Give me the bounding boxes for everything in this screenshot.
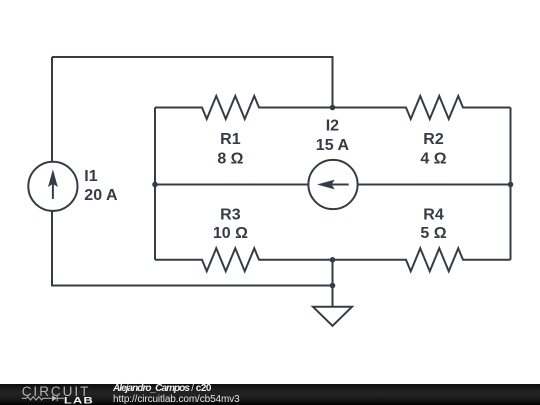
svg-text:I1: I1: [84, 168, 97, 185]
svg-text:5 Ω: 5 Ω: [420, 225, 446, 242]
svg-text:10 Ω: 10 Ω: [213, 225, 248, 242]
svg-text:R3: R3: [220, 207, 241, 224]
svg-text:20 A: 20 A: [84, 187, 118, 204]
svg-text:15 A: 15 A: [316, 137, 350, 154]
svg-text:R1: R1: [220, 131, 241, 148]
svg-text:4 Ω: 4 Ω: [420, 151, 446, 168]
svg-text:R4: R4: [423, 207, 444, 224]
svg-text:LAB: LAB: [64, 396, 94, 405]
svg-text:8 Ω: 8 Ω: [217, 151, 243, 168]
svg-text:I2: I2: [326, 118, 339, 135]
svg-text:R2: R2: [423, 131, 444, 148]
